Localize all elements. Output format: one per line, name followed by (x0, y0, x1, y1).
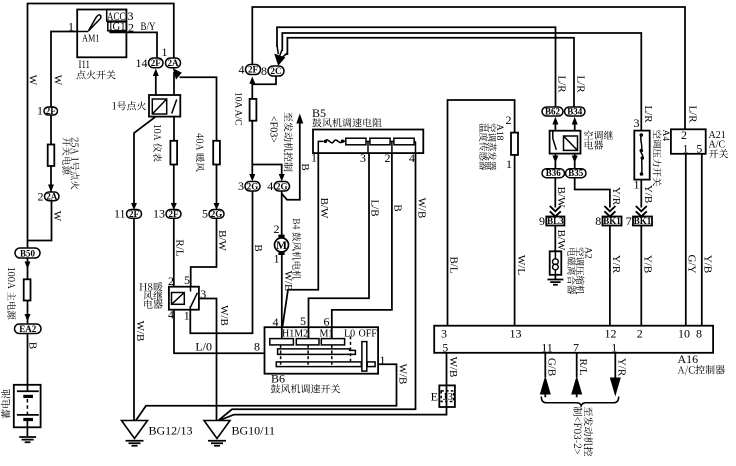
battery (14, 385, 41, 436)
svg-text:B34: B34 (567, 106, 583, 116)
svg-text:B/W: B/W (216, 230, 228, 251)
svg-text:I11: I11 (79, 57, 91, 71)
svg-text:11: 11 (541, 341, 553, 355)
svg-text:J: J (443, 392, 447, 403)
blower switch B6 box (265, 327, 379, 374)
svg-text:5: 5 (202, 207, 208, 221)
connector B36 (542, 168, 565, 178)
brace under arrows (541, 397, 618, 407)
fuse label 10A 仪表 (153, 125, 162, 162)
wire 13(2F) to H8 pin2 R/L (173, 218, 185, 286)
svg-text:B: B (392, 204, 404, 211)
svg-text:B/W: B/W (555, 230, 567, 251)
connector 8(2C) (261, 64, 284, 78)
svg-text:4: 4 (168, 308, 174, 322)
svg-text:2: 2 (168, 274, 174, 288)
wire B6 pin1 W/B to BG12/13 (136, 364, 409, 421)
svg-text:M: M (276, 240, 287, 252)
svg-text:13: 13 (510, 327, 522, 341)
chevron arrows into 8(BK1) (604, 206, 615, 217)
svg-text:B/L: B/L (448, 256, 460, 273)
svg-text:2F: 2F (169, 209, 180, 219)
svg-text:3: 3 (441, 327, 447, 341)
svg-text:B35: B35 (568, 168, 584, 178)
wire B5 pin3 L/B to B6 pin5 (309, 153, 381, 339)
arrow relay bottom into B35 (572, 154, 578, 169)
pin 1 label of I11 (68, 20, 74, 34)
svg-text:AM1: AM1 (82, 34, 100, 45)
ignition switch lever (77, 15, 101, 32)
svg-text:IG1: IG1 (109, 19, 126, 33)
wire label W on AM1 wire (52, 75, 64, 86)
connector B50 (15, 248, 40, 258)
wire motor to B6 pin4 W/B (282, 255, 294, 339)
wire label L/R at A21 (687, 105, 699, 123)
svg-text:W/B: W/B (397, 364, 409, 385)
svg-text:Y/B: Y/B (642, 255, 654, 273)
compressor clutch A2 (550, 251, 562, 274)
svg-text:W: W (27, 75, 39, 86)
label B4 鼓风机电机 (292, 219, 301, 280)
blower motor B4 (275, 235, 289, 255)
label A2 空调压缩机 电磁离合器 (567, 247, 592, 294)
wire label B/Y (141, 19, 156, 33)
wire B36 down B/W (555, 178, 567, 208)
wire label B at arrow (299, 163, 311, 170)
connector 4(2G) (267, 179, 289, 193)
connector 7 BK1 (626, 214, 652, 228)
label A18 空调蒸发器 温度传感器 (479, 123, 504, 170)
converging arrow into 8(2C) (274, 45, 287, 66)
svg-text:B: B (299, 163, 311, 170)
svg-text:G/Y: G/Y (686, 255, 698, 274)
svg-text:OFF: OFF (359, 328, 378, 339)
wire B5 pin4 W/B to BG10/11 (219, 153, 428, 420)
wire 8(2C) down to 4(2F) with arrow (249, 76, 276, 99)
svg-text:2F: 2F (248, 65, 259, 75)
svg-text:8: 8 (696, 327, 702, 341)
svg-text:12: 12 (605, 327, 617, 341)
svg-text:BG10/11: BG10/11 (232, 424, 276, 438)
pin 3 label ACC (128, 9, 134, 23)
connector 5(2G) (202, 207, 224, 221)
svg-text:B/W: B/W (318, 198, 330, 219)
wire A16 pin3 B/L up and over to A18 (448, 100, 515, 326)
triple wire 2 to A4 pin3 (282, 33, 641, 131)
connector 1(2F) (37, 104, 58, 118)
svg-text:2G: 2G (247, 181, 259, 191)
svg-text:1: 1 (68, 20, 74, 34)
ground under A2 (547, 275, 563, 285)
svg-text:L/R: L/R (687, 105, 699, 123)
svg-text:1: 1 (37, 104, 43, 118)
wire 8BK1 to A16 pin12 Y/R (610, 226, 622, 326)
wire B/Y: IG1 pin2 to 14(2F) (109, 32, 157, 58)
connector B34 (565, 106, 586, 116)
svg-text:R/L: R/L (173, 239, 185, 256)
svg-text:3: 3 (360, 151, 366, 165)
svg-text:L/R: L/R (575, 75, 587, 93)
svg-text:5: 5 (184, 273, 190, 287)
svg-text:7: 7 (626, 214, 632, 228)
battery label 蓄电池 (1, 389, 10, 418)
fuse 10A instrument (170, 117, 177, 210)
label I11 点火开关 (76, 57, 115, 79)
svg-text:1: 1 (634, 178, 640, 192)
ignition switch I11 box (77, 9, 126, 57)
svg-text:Y/R: Y/R (610, 255, 622, 274)
wire fuse to 3(2G) (249, 121, 255, 182)
svg-text:B6: B6 (271, 372, 285, 386)
pressure switch A4 (634, 131, 649, 180)
svg-text:Y/B: Y/B (642, 185, 654, 203)
svg-text:2F: 2F (151, 58, 162, 68)
connector 13(2F) (153, 207, 181, 221)
label A21 A/C 开关 (709, 130, 729, 158)
wire A16 pin1 Y/R with down arrow (610, 353, 628, 397)
A16 bottom pin labels (442, 341, 617, 355)
svg-text:1: 1 (162, 45, 168, 59)
svg-text:2F: 2F (46, 106, 57, 116)
wire 7BK1 to A16 pin2 Y/B (641, 226, 653, 326)
A4 pin1 label (634, 178, 640, 192)
fuse 40A heater (213, 141, 220, 210)
label A4 空调压力开关 (653, 130, 670, 187)
arrow relay top into B62 (552, 117, 558, 131)
svg-text:4: 4 (409, 151, 415, 165)
svg-text:11: 11 (114, 207, 126, 221)
wire 5(2G) to H8 pin5 B/W (191, 218, 228, 286)
label B5 鼓风机调速电阻 (312, 106, 382, 127)
svg-text:W/B: W/B (447, 357, 459, 378)
svg-text:Y/R: Y/R (616, 358, 628, 377)
wire 4(2G) to blower motor (281, 191, 283, 235)
wire label L/R at B62 (556, 75, 568, 93)
label B6 鼓风机调速开关 (271, 372, 340, 394)
fuse label 10A A/C (233, 92, 243, 126)
svg-text:1: 1 (506, 157, 512, 171)
fuse 10A A/C (250, 99, 257, 121)
wire EA2 to battery (27, 334, 29, 392)
arrow below B50 (25, 258, 31, 279)
resistor block B5 (313, 130, 423, 154)
svg-text:7: 7 (573, 341, 579, 355)
wire A21 pin1 G/Y to A16 pin10 (686, 154, 698, 326)
wire A16 pin5 W/B to EJ3 and BG10/11 (220, 353, 460, 421)
svg-text:BK1: BK1 (634, 216, 652, 226)
A18 pin1 label (506, 157, 512, 171)
A/C controller A16 box (434, 326, 713, 353)
svg-text:B: B (252, 244, 264, 251)
svg-text:1: 1 (274, 252, 280, 266)
svg-text:5: 5 (442, 341, 448, 355)
svg-text:8: 8 (595, 214, 601, 228)
svg-text:2: 2 (274, 222, 280, 236)
ground under battery (19, 437, 36, 442)
chevron arrows into 9(BL3) (550, 206, 561, 217)
motor pin 2 label (274, 222, 280, 236)
svg-text:BG12/13: BG12/13 (149, 424, 193, 438)
svg-text:B62: B62 (545, 106, 561, 116)
wire A16 pin11 G/B with up arrow (540, 353, 558, 398)
connector 8 BK1 (595, 214, 621, 228)
svg-text:A4: A4 (660, 130, 670, 142)
wire B5 pin2 B to B6 pin6 (332, 153, 404, 339)
svg-text:10A A/C: 10A A/C (233, 92, 243, 126)
triple wire 3 to B34 (287, 38, 574, 107)
svg-text:B5: B5 (312, 106, 326, 120)
svg-text:EA2: EA2 (19, 324, 37, 334)
svg-text:B/Y: B/Y (141, 19, 156, 33)
wire B35 to 8(BK1) Y/R (575, 178, 622, 208)
svg-text:2F: 2F (129, 209, 140, 219)
svg-text:4: 4 (267, 179, 273, 193)
svg-text:<F03>: <F03> (268, 116, 279, 143)
svg-text:A2: A2 (583, 247, 593, 259)
main feed wire top to A21 pin2 (252, 7, 685, 129)
svg-text:A/C: A/C (709, 140, 726, 151)
svg-text:B36: B36 (546, 168, 562, 178)
svg-text:H1M2: H1M2 (282, 328, 308, 339)
wire H8 pin3 to BG10/11 W/B (199, 299, 230, 421)
sensor A18 pin2 label (506, 113, 512, 127)
ground BG10/11 (204, 421, 275, 446)
svg-text:Y/R: Y/R (610, 187, 622, 206)
wire B5 pin1 B/W to B6 pin4 (283, 153, 330, 326)
svg-text:10: 10 (678, 327, 690, 341)
svg-text:R/L: R/L (577, 358, 589, 375)
wire A18 pin1 W/L to A16 pin13 (515, 155, 527, 326)
B6 contact bars (270, 336, 375, 371)
B6 pin labels 4 5 6 (273, 314, 330, 329)
evaporator temp sensor A18 resistor (511, 133, 518, 155)
wire relay switch top to 2A (173, 72, 175, 95)
svg-text:5: 5 (696, 142, 702, 156)
svg-text:E: E (431, 390, 438, 404)
pin 2 label IG1 (128, 20, 134, 34)
svg-text:A16: A16 (678, 352, 699, 366)
svg-text:2G: 2G (211, 209, 223, 219)
svg-text:L/0: L/0 (195, 340, 212, 354)
wire A21 pin5 Y/B to A16 pin8 (702, 154, 714, 326)
svg-text:Y/B: Y/B (702, 255, 714, 273)
svg-text:9: 9 (539, 214, 545, 228)
svg-text:B: B (27, 342, 39, 349)
connector 14(2F) (136, 56, 164, 70)
svg-text:W/B: W/B (416, 198, 428, 219)
svg-text:W/B: W/B (134, 321, 146, 342)
connector 1(2A) top (162, 45, 181, 68)
wire 4(2G) branch to engine control arrow B (282, 114, 304, 200)
fuse label 40A 暖风 (196, 133, 205, 171)
wire H8 pin1 to 3(2G) B (190, 191, 264, 333)
arrow relay top into B34 (572, 117, 578, 131)
label H8暖风继电器 (139, 282, 162, 309)
relay label 1号点火 (113, 101, 147, 110)
svg-text:2A: 2A (46, 191, 58, 201)
svg-text:L0: L0 (344, 328, 355, 339)
wire H8 pin4 L/0 to B6 pin8 (174, 310, 265, 354)
svg-text:B/W: B/W (555, 187, 567, 208)
svg-text:13: 13 (153, 207, 165, 221)
svg-text:1: 1 (611, 341, 617, 355)
fuse 100A main (24, 279, 31, 300)
triple wire 1 to B62 (277, 27, 556, 107)
arrow into EA2 (25, 301, 31, 325)
motor pin 1 label (274, 252, 280, 266)
H8 pin labels 2 5 3 4 1 (168, 273, 206, 323)
arrow relay bottom into B36 (552, 154, 558, 169)
svg-text:2: 2 (38, 190, 44, 204)
svg-text:W/B: W/B (218, 305, 230, 326)
pressure switch A4 pin3 label (634, 116, 640, 130)
relay 1号点火 (149, 95, 180, 117)
wire A4 pin1 Y/B to 7(BK1) (641, 180, 654, 208)
svg-text:W: W (52, 75, 64, 86)
wire label B (27, 342, 39, 349)
connector 2(2A) (38, 190, 60, 204)
wire relay coil to 11(2F) (131, 117, 156, 210)
svg-text:2A: 2A (168, 58, 180, 68)
wire label L/R at B34 (575, 75, 587, 93)
svg-text:L/R: L/R (556, 75, 568, 93)
relay A/C 空调继电器 (550, 131, 581, 154)
svg-text:2: 2 (506, 113, 512, 127)
wire label L/R at A4 (642, 105, 654, 123)
relay H8 heater relay (169, 287, 199, 310)
svg-text:L/R: L/R (642, 105, 654, 123)
svg-text:BL3: BL3 (547, 216, 564, 226)
svg-text:2C: 2C (271, 66, 282, 76)
svg-text:2G: 2G (276, 181, 288, 191)
svg-text:8: 8 (261, 64, 267, 78)
svg-text:1: 1 (184, 309, 190, 323)
A16 top pin labels (441, 327, 702, 341)
fuse label 25A 1号点火 开关电源 (62, 137, 79, 189)
svg-text:3: 3 (448, 392, 453, 403)
svg-text:G/B: G/B (546, 358, 558, 376)
fuse label 100A 主电源 (7, 268, 16, 320)
svg-text:BK1: BK1 (603, 216, 621, 226)
connector 4(2F) (239, 63, 261, 77)
wire 11(2F) to BG12/13 W/B (134, 218, 146, 420)
wire from 40A branch into 2A with slanted arrow (173, 68, 217, 141)
connector B62 (542, 106, 563, 116)
connector 3(2G) (238, 179, 260, 193)
B6 pin1 label (380, 353, 386, 367)
svg-text:2: 2 (681, 128, 687, 142)
chevron arrows into 7(BK1) (636, 206, 647, 217)
connector 11(2F) (114, 207, 142, 221)
branch wire to 4(2G) (252, 165, 284, 182)
wire: I11 pin1 AM1 to 1(2F) (51, 32, 77, 108)
connector 9 BL3 (539, 214, 564, 228)
wire label W on left border (27, 75, 39, 86)
connector B35 (566, 168, 587, 178)
svg-text:L/B: L/B (369, 199, 381, 216)
svg-text:2: 2 (385, 151, 391, 165)
svg-text:8: 8 (254, 340, 260, 354)
svg-text:3: 3 (634, 116, 640, 130)
svg-text:B50: B50 (20, 248, 36, 258)
wire BL3 to A2 B/W (555, 226, 567, 252)
arrow from relay coil up into 14(2F) (153, 69, 159, 96)
svg-text:5: 5 (300, 314, 306, 328)
svg-text:14: 14 (136, 56, 148, 70)
svg-text:1: 1 (311, 151, 317, 165)
svg-text:2: 2 (637, 327, 643, 341)
fuse 25A ignition (48, 115, 55, 192)
A/C switch A21 (671, 128, 706, 156)
wire: 2A to left border down to B50 (28, 4, 174, 248)
svg-text:M1: M1 (320, 328, 334, 339)
svg-text:1: 1 (683, 142, 689, 156)
connector EA2 (15, 324, 42, 334)
label A16 A/C控制器 (678, 352, 725, 375)
wire 2(2A) to B50 (28, 201, 52, 241)
B5 pin labels 1 3 2 4 (311, 151, 415, 166)
junction E J3 (431, 385, 455, 407)
wire A16 pin7 R/L with up arrow (571, 353, 589, 398)
svg-text:4: 4 (239, 63, 245, 77)
wire label W below 2(2A) (51, 211, 63, 222)
svg-text:3: 3 (238, 179, 244, 193)
svg-text:W/L: W/L (515, 255, 527, 275)
label 至发动机控制 F03 (268, 112, 294, 171)
ground BG12/13 (122, 421, 193, 446)
svg-text:W/B: W/B (282, 271, 294, 292)
arrow into 2(2A) (48, 185, 54, 193)
svg-text:W: W (51, 211, 63, 222)
label 空调继电器 (584, 131, 613, 150)
label 至发动机控制 F03-2 (573, 407, 593, 456)
